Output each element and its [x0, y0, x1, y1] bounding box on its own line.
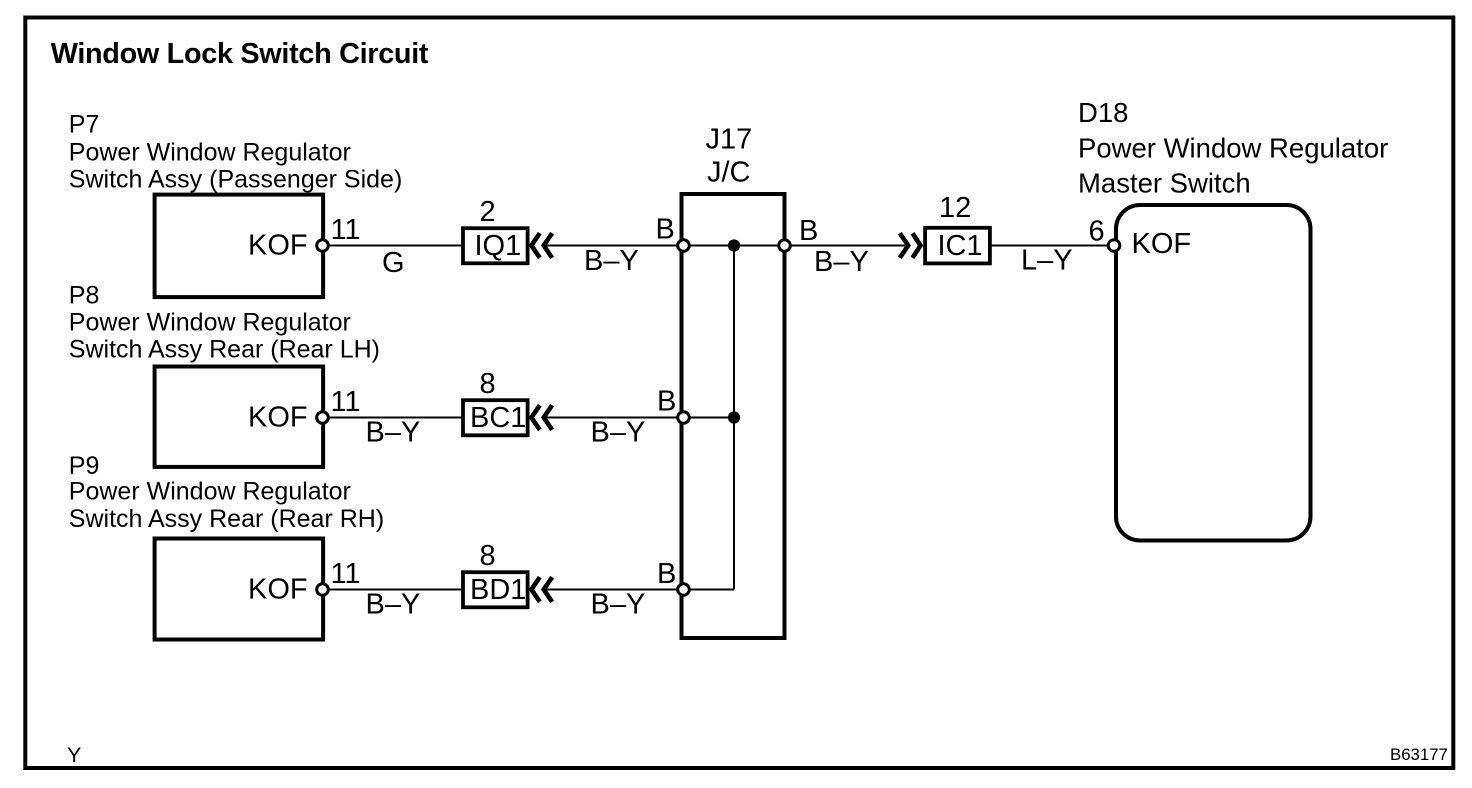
wire inside J/C row1 [684, 245, 785, 247]
master switch D18 box [1116, 205, 1311, 541]
chevrons << after IQ1 [531, 233, 539, 258]
pin circle J/C B row3 [678, 584, 690, 596]
svg-text:Y: Y [67, 743, 81, 767]
svg-text:Master Switch: Master Switch [1078, 168, 1251, 199]
svg-text:12: 12 [939, 192, 971, 224]
svg-text:B–Y: B–Y [366, 589, 421, 621]
svg-text:P8: P8 [69, 282, 100, 310]
svg-text:B: B [799, 215, 818, 247]
junction connector BC1 [463, 400, 528, 435]
pin circle D18:6 [1108, 240, 1120, 252]
svg-text:B63177: B63177 [1390, 745, 1448, 764]
wire IQ1 to J/C row1 [544, 245, 684, 247]
junction dot row1 [728, 239, 740, 251]
connector P9 box [155, 539, 324, 640]
pin circle P9:11 [317, 584, 329, 596]
pin circle P8:11 [317, 412, 329, 424]
wire P8 pin to BC1 [323, 417, 463, 419]
svg-text:Window Lock Switch Circuit: Window Lock Switch Circuit [51, 38, 429, 70]
svg-text:Switch Assy Rear (Rear LH): Switch Assy Rear (Rear LH) [69, 335, 380, 363]
junction connector IQ1 [463, 228, 528, 263]
wire J/C right pin to IC1 chevrons [785, 245, 906, 247]
chevrons << after BD1 [531, 577, 539, 602]
svg-text:KOF: KOF [248, 574, 308, 606]
svg-text:8: 8 [480, 540, 496, 572]
wire inside J/C row2 [684, 417, 735, 419]
junction dot row2 [728, 411, 740, 423]
svg-text:D18: D18 [1078, 97, 1128, 128]
svg-text:IQ1: IQ1 [475, 230, 522, 262]
wire P7 pin to IQ1 [323, 245, 463, 247]
svg-text:Switch Assy Rear (Rear RH): Switch Assy Rear (Rear RH) [69, 505, 384, 533]
svg-text:G: G [382, 247, 405, 279]
junction connector BD1 [463, 572, 528, 607]
svg-text:P7: P7 [69, 111, 100, 139]
pin circle J/C B row1 right [779, 240, 791, 252]
wire P9 pin to BD1 [323, 589, 463, 591]
svg-text:2: 2 [480, 196, 496, 228]
svg-text:BD1: BD1 [470, 574, 526, 606]
svg-text:J/C: J/C [707, 157, 751, 189]
svg-text:Power Window Regulator: Power Window Regulator [69, 138, 351, 166]
svg-text:11: 11 [331, 558, 361, 590]
svg-text:KOF: KOF [248, 230, 308, 262]
svg-text:6: 6 [1089, 215, 1105, 247]
chevrons >> before IC1 [900, 233, 908, 258]
svg-text:Switch Assy (Passenger Side): Switch Assy (Passenger Side) [69, 166, 402, 194]
connector P8 box [155, 367, 324, 467]
svg-text:8: 8 [480, 368, 496, 400]
svg-text:KOF: KOF [1132, 228, 1192, 260]
pin circle J/C B row1 left [678, 240, 690, 252]
svg-text:J17: J17 [706, 124, 753, 156]
svg-text:B–Y: B–Y [584, 245, 639, 277]
svg-text:Power Window Regulator: Power Window Regulator [69, 478, 351, 506]
svg-text:B–Y: B–Y [366, 417, 421, 449]
pin circle J/C B row2 [678, 412, 690, 424]
svg-text:L–Y: L–Y [1021, 245, 1073, 277]
svg-text:BC1: BC1 [470, 402, 526, 434]
connector P7 box [155, 195, 324, 298]
wire BD1 to J/C row3 [544, 589, 684, 591]
chevrons << after BC1 [531, 405, 539, 430]
junction connector IC1 [925, 228, 990, 264]
svg-text:Power Window Regulator: Power Window Regulator [1078, 132, 1388, 163]
svg-text:IC1: IC1 [938, 230, 983, 262]
wire BC1 to J/C row2 [544, 417, 684, 419]
svg-text:KOF: KOF [248, 402, 308, 434]
svg-text:B–Y: B–Y [591, 589, 646, 621]
svg-text:B: B [657, 558, 676, 590]
svg-text:11: 11 [331, 386, 361, 418]
pin circle P7:11 [317, 240, 329, 252]
svg-text:B–Y: B–Y [814, 246, 869, 278]
svg-text:P9: P9 [69, 452, 100, 480]
svg-text:11: 11 [331, 214, 361, 246]
svg-text:Power Window Regulator: Power Window Regulator [69, 309, 351, 337]
internal bus wire vertical [733, 246, 735, 590]
svg-text:B–Y: B–Y [591, 417, 646, 449]
wire IC1 to master switch [991, 245, 1114, 247]
svg-text:B: B [656, 214, 675, 246]
junction block J17 J/C [682, 194, 785, 638]
svg-text:B: B [657, 386, 676, 418]
wire inside J/C row3 [684, 589, 735, 591]
